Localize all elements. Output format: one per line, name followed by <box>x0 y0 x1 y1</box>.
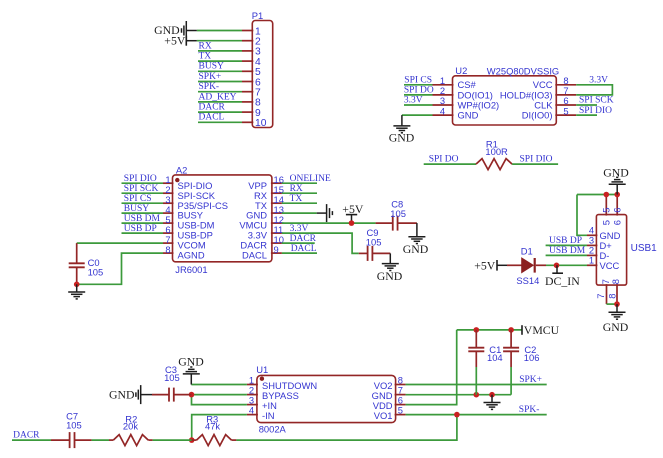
U1 pin 1 marker dot <box>260 377 264 381</box>
USB1 pin 1 stub <box>587 264 597 266</box>
wire USB1.4 GND loop <box>577 195 587 236</box>
wire net SPI DO to R1 <box>424 163 476 165</box>
power port +5V <box>346 214 357 216</box>
A2 pin 10 stub <box>271 242 282 244</box>
svg-text:3.3V: 3.3V <box>404 96 423 106</box>
svg-text:3.3V: 3.3V <box>290 224 309 234</box>
junction C2 top <box>508 327 514 333</box>
junction C1 bottom <box>474 392 480 398</box>
ground at A2 pin 13 <box>317 212 327 214</box>
svg-text:P1: P1 <box>252 10 263 21</box>
wire net USB DP to A2.6 <box>122 232 164 234</box>
wire net USB DM to A2.5 <box>122 222 164 224</box>
svg-text:5: 5 <box>398 405 403 416</box>
ground at C8 <box>416 223 418 236</box>
svg-text:1: 1 <box>589 255 594 266</box>
U2 pin 4 stub <box>433 114 454 116</box>
wire U1.4 -IN down to R2/R3 junction <box>192 415 247 441</box>
svg-text:+5V: +5V <box>342 202 364 216</box>
U1 pin 7 stub <box>395 394 406 396</box>
svg-text:USB DP: USB DP <box>124 224 157 234</box>
svg-text:5: 5 <box>600 208 611 213</box>
P1 pin 2 stub <box>242 40 253 42</box>
wire U1.2 BYPASS to C3 <box>192 394 247 396</box>
svg-text:TX: TX <box>199 52 212 62</box>
capacitor C9 <box>359 252 367 254</box>
svg-text:DACR: DACR <box>199 103 226 113</box>
power port +5V at D1 <box>496 260 498 271</box>
wire net SPK+ <box>198 81 242 83</box>
P1 pin 7 stub <box>242 91 253 93</box>
capacitor C0 <box>76 243 78 263</box>
svg-text:6: 6 <box>612 220 623 225</box>
svg-text:SPI CS: SPI CS <box>124 194 152 204</box>
svg-text:4: 4 <box>249 405 254 416</box>
svg-text:A2: A2 <box>176 164 187 175</box>
U1 pin 8 stub <box>395 384 406 386</box>
connector USB1 body <box>596 215 626 286</box>
U2 pin 1 stub <box>433 84 454 86</box>
wire U1.7 GND to C1/C2 bottoms <box>406 394 512 396</box>
svg-text:DACR: DACR <box>290 234 317 244</box>
wire R1 to net SPI DIO <box>512 163 558 165</box>
wire net BUSY to A2.4 <box>122 212 164 214</box>
svg-text:U1: U1 <box>256 364 268 375</box>
U1 pin 1 stub <box>247 384 258 386</box>
svg-text:DACL: DACL <box>199 113 225 123</box>
junction C1 top <box>474 327 480 333</box>
wire A2.14 net TX <box>282 202 317 204</box>
svg-text:USB DM: USB DM <box>124 214 161 224</box>
svg-text:W25Q80DVSSIG: W25Q80DVSSIG <box>487 65 559 76</box>
svg-text:10: 10 <box>255 118 267 129</box>
junction VO1/SPK-/feedback <box>454 412 460 418</box>
svg-text:8: 8 <box>610 279 621 284</box>
A2 pin 12 stub <box>271 222 282 224</box>
svg-text:8002A: 8002A <box>259 424 287 435</box>
svg-text:106: 106 <box>524 352 540 363</box>
U1 pin 5 stub <box>395 414 406 416</box>
svg-text:SPK-: SPK- <box>199 82 220 92</box>
USB1 pin 3 stub <box>587 244 597 246</box>
svg-text:6: 6 <box>611 208 622 213</box>
wire D1 cathode to USB1.1 VCC <box>546 264 587 266</box>
wire net TX <box>198 60 242 62</box>
svg-text:5: 5 <box>563 105 568 116</box>
svg-text:SPI DIO: SPI DIO <box>520 154 553 164</box>
wire net SPI SCK to A2.2 <box>122 192 164 194</box>
P1 pin 6 stub <box>242 81 253 83</box>
wire A2.7 VCOM to C0 <box>77 242 163 244</box>
wire USB1 pins 5,6 to ground <box>577 194 617 196</box>
wire net SPI DIO to U2.5 <box>576 114 597 116</box>
wire junction to U1.3 +IN <box>192 395 247 405</box>
svg-text:105: 105 <box>390 208 406 219</box>
svg-text:SPI SCK: SPI SCK <box>579 96 614 106</box>
svg-text:GND: GND <box>603 165 629 179</box>
svg-text:SPI DO: SPI DO <box>404 86 434 96</box>
wire U1.1 to ground <box>191 384 247 386</box>
svg-text:9: 9 <box>274 244 279 255</box>
P1 pin 8 stub <box>242 101 253 103</box>
svg-text:USB1: USB1 <box>631 243 658 254</box>
A2 pin 16 stub <box>271 182 282 184</box>
svg-text:SPK+: SPK+ <box>199 72 222 82</box>
A2 pin 8 stub <box>163 252 174 254</box>
svg-text:DI(IO0): DI(IO0) <box>522 110 553 121</box>
A2 pin 4 stub <box>163 212 174 214</box>
ground below C0 <box>76 284 78 291</box>
svg-text:SPK+: SPK+ <box>519 375 542 385</box>
svg-text:5: 5 <box>601 220 612 225</box>
U2 pin 3 stub <box>433 104 454 106</box>
P1 pin 4 stub <box>242 60 253 62</box>
wire net SPI DIO to A2.1 <box>122 182 164 184</box>
U2 pin 8 stub <box>555 84 576 86</box>
wire U2.4 to ground <box>402 114 433 116</box>
U2 pin 6 stub <box>555 104 576 106</box>
capacitor C7 <box>51 439 70 441</box>
wire R3 to VO1 feedback <box>236 415 457 441</box>
svg-text:SPI DIO: SPI DIO <box>579 106 612 116</box>
svg-text:AD_KEY: AD_KEY <box>199 92 237 102</box>
IC U1 8002A body <box>257 375 396 422</box>
svg-text:4: 4 <box>440 105 445 116</box>
svg-text:D1: D1 <box>521 246 533 257</box>
ground below USB1 <box>616 304 618 312</box>
U1 pin 6 stub <box>395 404 406 406</box>
ground above USB1 <box>616 185 618 195</box>
wire A2.9 net DACL <box>282 252 317 254</box>
junction ground tap <box>489 392 495 398</box>
capacitor C3 <box>174 394 192 396</box>
A2 pin 15 stub <box>271 192 282 194</box>
capacitor C1 <box>475 330 477 348</box>
svg-text:RX: RX <box>290 184 303 194</box>
resistor R2 <box>109 439 113 441</box>
svg-text:GND: GND <box>603 320 629 334</box>
U1 pin 2 stub <box>247 394 258 396</box>
A2 pin 5 stub <box>163 222 174 224</box>
wire net BUSY <box>198 70 242 72</box>
junction at C3 right <box>189 392 195 398</box>
ground above U1 pin 1 <box>190 374 192 384</box>
P1 pin 1 stub <box>242 30 253 32</box>
wire net DACR to C7 <box>12 439 51 441</box>
resistor R1 <box>476 159 512 170</box>
svg-text:47k: 47k <box>205 421 220 432</box>
wire net SPI DO to U2.2 <box>404 94 433 96</box>
IC U2 W25Q80DVSSIG body <box>453 76 557 125</box>
wire net SPK- <box>198 91 242 93</box>
svg-text:GND: GND <box>377 269 403 283</box>
capacitor C2 <box>510 330 512 348</box>
power port VMCU <box>521 325 523 335</box>
capacitor C8 <box>376 222 393 224</box>
USB1 pin 2 stub <box>587 254 597 256</box>
svg-text:104: 104 <box>487 352 503 363</box>
U1 pin 3 stub <box>247 404 258 406</box>
svg-text:8: 8 <box>165 244 170 255</box>
A2 pin 3 stub <box>163 202 174 204</box>
junction at pin5 top <box>604 192 610 198</box>
svg-text:BUSY: BUSY <box>124 204 149 214</box>
svg-text:TX: TX <box>290 194 303 204</box>
svg-text:105: 105 <box>366 237 382 248</box>
wire A2.15 net RX <box>282 192 317 194</box>
junction at C0 bottom <box>74 282 80 288</box>
junction at DC_IN tap <box>554 263 560 269</box>
svg-text:105: 105 <box>88 267 104 278</box>
wire net 3.3V to U2.3 <box>404 104 433 106</box>
power port DC_IN <box>556 265 558 272</box>
svg-text:105: 105 <box>164 372 180 383</box>
svg-text:JR6001: JR6001 <box>175 264 207 275</box>
svg-text:GND: GND <box>178 354 204 368</box>
A2 pin 7 stub <box>163 242 174 244</box>
wire A2.11 net 3.3V to C9 <box>282 233 359 253</box>
wire net USB DP to USB1.3 <box>546 244 587 246</box>
A2 pin 1 marker dot <box>175 178 179 182</box>
wire net AD_KEY <box>198 101 242 103</box>
wire net RX <box>198 50 242 52</box>
wire U2.8 VCC loop to U2.7 <box>576 85 612 95</box>
power port +5V at P1 pin 2 <box>186 40 197 42</box>
svg-text:DACL: DACL <box>291 244 317 254</box>
ground at P1 pin 1 <box>186 30 197 32</box>
junction at +5V tap <box>349 220 355 226</box>
svg-text:8: 8 <box>607 294 618 299</box>
svg-text:USB DM: USB DM <box>549 246 586 256</box>
junction R2/R3/U1.4 <box>189 437 195 443</box>
A2 pin 6 stub <box>163 232 174 234</box>
wire A2.13 to ground <box>282 212 317 214</box>
A2 pin 1 stub <box>163 182 174 184</box>
svg-text:VO1: VO1 <box>374 410 393 421</box>
svg-text:SPK-: SPK- <box>519 405 540 415</box>
ground left of C3 <box>141 394 152 396</box>
wire net DACR <box>198 111 242 113</box>
wire A2.16 net ONELINE <box>282 182 317 184</box>
svg-text:7: 7 <box>595 294 606 299</box>
wire R2 to junction <box>153 439 192 441</box>
svg-text:-IN: -IN <box>262 410 275 421</box>
wire net DACL <box>198 121 242 123</box>
svg-text:GND: GND <box>109 388 135 402</box>
svg-text:GND: GND <box>389 130 415 144</box>
svg-text:DC_IN: DC_IN <box>545 274 580 288</box>
svg-text:DACR: DACR <box>13 430 40 440</box>
USB1 pin 4 stub <box>587 234 597 236</box>
svg-text:BUSY: BUSY <box>199 62 224 72</box>
svg-text:SS14: SS14 <box>516 275 539 286</box>
svg-text:SPI DO: SPI DO <box>429 154 459 164</box>
svg-text:GND: GND <box>458 110 479 121</box>
USB1 pin 8 stub (bottom) <box>616 284 618 304</box>
wire A2.12 VMCU to +5V and C8 <box>282 222 376 224</box>
P1 pin 2 wire <box>197 40 242 42</box>
P1 pin 1 wire <box>197 30 242 32</box>
svg-text:GND: GND <box>403 242 429 256</box>
wire U1.5 VO1 net SPK- <box>406 414 547 416</box>
wire VMCU rail <box>457 329 522 331</box>
wire USB1 pins 7,8 to ground <box>607 303 618 305</box>
IC A2 JR6001 body <box>173 175 272 262</box>
ground at C9 <box>389 253 391 263</box>
svg-text:U2: U2 <box>455 65 467 76</box>
resistor R3 <box>192 439 197 441</box>
P1 pin 5 stub <box>242 70 253 72</box>
svg-text:VMCU: VMCU <box>524 323 560 337</box>
wire A2.8 AGND down-left to C0 bottom <box>77 253 163 284</box>
junction at pin8 bottom <box>614 301 620 307</box>
USB1 pin 7 stub (bottom) <box>606 284 608 304</box>
U2 pin 5 stub <box>555 114 576 116</box>
svg-text:+5V: +5V <box>474 258 496 272</box>
wire net SPI CS to U2.1 <box>404 84 433 86</box>
ground at U2 pin 4 <box>401 115 403 126</box>
ground at U1.7 net <box>491 395 493 403</box>
USB1 pin 6 stub (top) <box>616 195 618 216</box>
wire net USB DM to USB1.2 <box>546 254 587 256</box>
wire U1.6 VDD up to VMCU rail <box>406 330 457 405</box>
P1 pin 9 stub <box>242 111 253 113</box>
A2 pin 9 stub <box>271 252 282 254</box>
wire net SPI CS to A2.3 <box>122 202 164 204</box>
wire net SPI SCK to U2.6 <box>576 104 597 106</box>
diode D1 SS14 <box>507 264 522 266</box>
U2 pin 7 stub <box>555 94 576 96</box>
svg-text:SPI SCK: SPI SCK <box>124 184 159 194</box>
wire U1.8 VO2 net SPK+ <box>406 384 547 386</box>
P1 pin 3 stub <box>242 50 253 52</box>
svg-text:DACL: DACL <box>242 250 267 261</box>
svg-text:3.3V: 3.3V <box>589 76 608 86</box>
svg-text:ONELINE: ONELINE <box>290 174 331 184</box>
A2 pin 2 stub <box>163 192 174 194</box>
svg-text:SPI CS: SPI CS <box>404 76 432 86</box>
U2 pin 2 stub <box>433 94 454 96</box>
svg-text:105: 105 <box>66 420 82 431</box>
junction at pin6 top <box>614 192 620 198</box>
A2 pin 14 stub <box>271 202 282 204</box>
A2 pin 11 stub <box>271 232 282 234</box>
USB1 pin 5 stub (top) <box>605 195 607 216</box>
svg-text:20k: 20k <box>123 421 138 432</box>
A2 pin 13 stub <box>271 212 282 214</box>
svg-text:AGND: AGND <box>178 250 205 261</box>
P1 pin 10 stub <box>242 121 253 123</box>
wire A2.10 net DACR <box>282 242 315 244</box>
connector P1 <box>252 21 272 128</box>
svg-text:+5V: +5V <box>164 33 186 47</box>
svg-text:USB DP: USB DP <box>549 236 582 246</box>
svg-text:SPI DIO: SPI DIO <box>124 174 157 184</box>
svg-text:RX: RX <box>199 41 212 51</box>
wire C7 to R2 <box>92 439 109 441</box>
svg-text:100R: 100R <box>485 146 508 157</box>
svg-text:VCC: VCC <box>600 260 620 271</box>
U1 pin 4 stub <box>247 414 258 416</box>
